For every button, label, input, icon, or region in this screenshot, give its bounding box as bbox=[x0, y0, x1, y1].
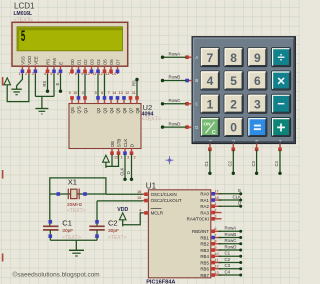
svg-text:RowD: RowD bbox=[225, 244, 237, 249]
U1 pin 10 (RB4) bbox=[200, 252, 221, 259]
U1 pin 8 (RB2) bbox=[200, 240, 221, 247]
svg-text:2: 2 bbox=[134, 156, 136, 160]
U1 pin 3 (RA4/T0CKI) bbox=[187, 215, 222, 222]
svg-text:RS: RS bbox=[42, 81, 47, 87]
svg-text:VDD: VDD bbox=[27, 56, 32, 65]
svg-text:D5: D5 bbox=[103, 59, 108, 65]
keypad button multiply bbox=[271, 71, 290, 90]
svg-text:CLK: CLK bbox=[120, 167, 125, 175]
svg-text:8: 8 bbox=[214, 240, 216, 244]
wire net E from U1 bbox=[219, 192, 243, 195]
svg-text:VSS: VSS bbox=[20, 56, 25, 65]
svg-text:RowA: RowA bbox=[225, 226, 237, 231]
U2 input pin name labels OE STB CLK D bbox=[110, 139, 135, 148]
svg-text:RowC: RowC bbox=[225, 238, 237, 243]
wire U2 STB to power bbox=[112, 155, 119, 167]
svg-text:5: 5 bbox=[21, 29, 26, 47]
ground symbol (LCD VEE/RW) bbox=[35, 96, 48, 114]
U2 output pin name labels bbox=[70, 106, 140, 113]
svg-text:A: A bbox=[195, 55, 198, 60]
keypad row pin A stub bbox=[185, 55, 192, 59]
wire LCD D2 to U2 bbox=[84, 74, 86, 96]
clipped wire stub left edge middle bbox=[2, 170, 4, 179]
svg-text:RB3: RB3 bbox=[200, 248, 209, 253]
wire LCD D1 to U2 bbox=[78, 74, 80, 96]
svg-text:×: × bbox=[277, 72, 285, 88]
svg-text:10: 10 bbox=[73, 91, 77, 95]
keypad row pin C stub bbox=[185, 102, 192, 106]
svg-text:B: B bbox=[195, 78, 198, 83]
svg-text:PIC16F84A: PIC16F84A bbox=[146, 279, 175, 284]
keypad button equals bbox=[248, 117, 267, 136]
svg-text:D1: D1 bbox=[77, 59, 82, 65]
svg-text:0: 0 bbox=[230, 121, 237, 135]
C1 pin state squares bbox=[49, 220, 53, 238]
wire VSS to ground bbox=[17, 74, 23, 86]
U2 top pins stubs with logic-state squares and pin numbers bbox=[69, 91, 139, 104]
U2 bottom pins stubs with logic-state squares and pin numbers bbox=[110, 149, 135, 160]
svg-text:30pF: 30pF bbox=[108, 228, 119, 234]
wire net C4 from U1 bbox=[219, 274, 243, 277]
svg-text:RB4: RB4 bbox=[200, 254, 209, 259]
wire net CLK from U1 bbox=[219, 199, 243, 202]
svg-text:9: 9 bbox=[254, 51, 261, 65]
C2 pin state squares bbox=[95, 220, 99, 238]
keypad row pin B stub bbox=[185, 79, 192, 83]
svg-text:RowB: RowB bbox=[225, 232, 237, 237]
svg-text:RB2: RB2 bbox=[200, 242, 209, 247]
keypad button plus bbox=[271, 117, 290, 136]
svg-text:13: 13 bbox=[105, 72, 109, 76]
svg-text:QS: QS bbox=[70, 107, 75, 113]
LCD1 body bbox=[12, 22, 128, 66]
svg-text:D3: D3 bbox=[90, 59, 95, 65]
wire crystal top loop bbox=[50, 178, 106, 226]
svg-text:7: 7 bbox=[207, 51, 214, 65]
svg-text:4: 4 bbox=[139, 209, 141, 213]
keypad body bbox=[192, 37, 295, 143]
svg-text:RW: RW bbox=[52, 57, 57, 65]
svg-text:C2: C2 bbox=[225, 257, 231, 262]
wire net C4 from keypad bbox=[278, 150, 281, 175]
svg-text:Q1: Q1 bbox=[83, 107, 88, 113]
LCD1 screen bbox=[17, 27, 123, 51]
svg-text:STB: STB bbox=[117, 139, 122, 148]
clipped wire stub left edge bottom bbox=[2, 254, 4, 262]
svg-text:OSC2/CLKOUT: OSC2/CLKOUT bbox=[151, 198, 182, 203]
svg-text:18: 18 bbox=[214, 196, 218, 200]
keypad button 7 bbox=[200, 48, 219, 67]
wire net C1 from keypad bbox=[208, 150, 211, 175]
svg-text:D: D bbox=[126, 171, 131, 174]
svg-text:Q5: Q5 bbox=[116, 107, 121, 113]
svg-text:÷: ÷ bbox=[277, 50, 284, 65]
power terminal VDD (LCD) bbox=[4, 78, 11, 89]
svg-text:Q8: Q8 bbox=[135, 107, 140, 113]
svg-text:Q3: Q3 bbox=[103, 107, 108, 113]
svg-text:C3: C3 bbox=[251, 160, 256, 166]
wire VDD to MCLR bbox=[123, 213, 143, 225]
svg-text:5: 5 bbox=[95, 91, 97, 95]
U1 pin 13 (RB7) bbox=[200, 271, 221, 278]
wire net RowA from U1 bbox=[219, 230, 243, 233]
U1 pin 12 (RB6) bbox=[200, 265, 221, 272]
svg-text:17: 17 bbox=[214, 190, 218, 194]
svg-text:13: 13 bbox=[214, 271, 218, 275]
svg-text:CLK: CLK bbox=[123, 139, 128, 148]
power terminal VDD (MCLR) bbox=[119, 213, 126, 227]
svg-text:VEE: VEE bbox=[33, 56, 38, 65]
svg-text:C4: C4 bbox=[225, 269, 231, 274]
svg-text:C3: C3 bbox=[225, 263, 231, 268]
svg-text:RowA: RowA bbox=[169, 51, 181, 56]
U1 pin 9 (RB3) bbox=[200, 246, 221, 253]
svg-text:6: 6 bbox=[101, 91, 103, 95]
wire RW to ground rail bbox=[53, 74, 55, 96]
svg-text:RB1: RB1 bbox=[200, 235, 209, 240]
svg-text:Q6: Q6 bbox=[122, 107, 127, 113]
wire OSC2 down to C2 bbox=[96, 201, 98, 226]
U1 pin 1 (RA2) bbox=[200, 202, 221, 209]
svg-text:D4: D4 bbox=[96, 59, 101, 65]
svg-text:RowC: RowC bbox=[169, 98, 181, 103]
svg-text:1: 1 bbox=[214, 202, 216, 206]
svg-text:D2: D2 bbox=[83, 59, 88, 65]
svg-text:D: D bbox=[195, 125, 198, 130]
svg-text:D6: D6 bbox=[109, 59, 114, 65]
wire net C3 from U1 bbox=[219, 267, 243, 270]
keypad column pin 4 stub bbox=[278, 143, 282, 151]
wire net RowC from U1 bbox=[219, 242, 243, 245]
svg-text:4: 4 bbox=[44, 72, 46, 76]
svg-text:C: C bbox=[212, 130, 216, 136]
svg-text:RS: RS bbox=[131, 80, 136, 86]
svg-text:RowD: RowD bbox=[169, 121, 181, 126]
wire ground rail C1-C2 bbox=[50, 239, 97, 241]
svg-text:15: 15 bbox=[137, 196, 141, 200]
svg-text:12: 12 bbox=[125, 91, 129, 95]
keypad button 4 bbox=[200, 71, 219, 90]
svg-text:2: 2 bbox=[214, 208, 216, 212]
wire OSC1 to U1 bbox=[106, 193, 143, 195]
svg-text:11: 11 bbox=[92, 72, 96, 76]
U1 pin 11 (RB5) bbox=[200, 258, 221, 265]
svg-text:E: E bbox=[238, 188, 241, 193]
capacitor C1 bbox=[43, 226, 59, 240]
svg-text:C4: C4 bbox=[274, 160, 279, 166]
svg-text:RA1: RA1 bbox=[200, 198, 209, 203]
clipped wire stub left edge top bbox=[2, 77, 4, 86]
svg-text:RA4/T0CKI: RA4/T0CKI bbox=[187, 217, 209, 222]
wire net CLK from U2 bbox=[123, 155, 126, 181]
svg-text:3: 3 bbox=[127, 156, 129, 160]
svg-text:1: 1 bbox=[207, 97, 214, 111]
svg-text:6: 6 bbox=[254, 74, 261, 88]
X1 pin state squares bbox=[57, 192, 87, 196]
wire net RS to U2 Q8 bbox=[135, 78, 138, 97]
svg-text:10: 10 bbox=[214, 252, 218, 256]
svg-text:RS: RS bbox=[46, 59, 51, 65]
svg-text:C2: C2 bbox=[108, 218, 118, 227]
keypad row pin D stub bbox=[185, 125, 192, 129]
U1 pin 16 (OSC1/CLKIN) bbox=[137, 190, 177, 197]
wire LCD D4 to U2 bbox=[97, 74, 99, 96]
svg-text:14: 14 bbox=[112, 72, 116, 76]
svg-text:+: + bbox=[277, 120, 286, 137]
keypad button 5 bbox=[224, 71, 243, 90]
svg-text:5: 5 bbox=[50, 72, 52, 76]
svg-text:D: D bbox=[238, 201, 241, 206]
svg-text:RA2: RA2 bbox=[200, 204, 209, 209]
svg-text:RB0/INT: RB0/INT bbox=[192, 229, 209, 234]
keypad button minus bbox=[271, 94, 290, 113]
svg-text:Q2: Q2 bbox=[96, 107, 101, 113]
svg-text:<TEXT>: <TEXT> bbox=[67, 208, 86, 214]
svg-text:1: 1 bbox=[209, 140, 213, 142]
svg-text:1: 1 bbox=[121, 156, 123, 160]
svg-text:16: 16 bbox=[137, 190, 141, 194]
svg-text:OE: OE bbox=[110, 141, 115, 147]
keypad column pin 3 stub bbox=[255, 143, 259, 151]
wire net RowD from U1 bbox=[219, 249, 243, 252]
svg-text:10: 10 bbox=[86, 72, 90, 76]
svg-text:CLK: CLK bbox=[232, 194, 241, 199]
ground symbol (LCD VSS) bbox=[11, 86, 21, 95]
svg-text:15: 15 bbox=[114, 156, 118, 160]
svg-text:ON: ON bbox=[204, 122, 212, 127]
svg-text:U1: U1 bbox=[146, 181, 157, 190]
svg-text:<TEXT>: <TEXT> bbox=[108, 235, 127, 241]
svg-text:RB5: RB5 bbox=[200, 260, 209, 265]
svg-text:4: 4 bbox=[207, 74, 214, 88]
svg-text:9: 9 bbox=[69, 91, 71, 95]
svg-text:1: 1 bbox=[19, 72, 21, 76]
wire net C2 from keypad bbox=[232, 150, 235, 175]
svg-text:<TEXT>: <TEXT> bbox=[142, 117, 161, 123]
svg-text:12: 12 bbox=[214, 265, 218, 269]
keypad button 8 bbox=[224, 48, 243, 67]
wire net RowC to keypad bbox=[161, 102, 187, 105]
wire net D from U2 bbox=[130, 155, 133, 181]
keypad button 9 bbox=[248, 48, 267, 67]
keypad button 0 bbox=[224, 117, 243, 136]
svg-text:7: 7 bbox=[214, 233, 216, 237]
U1 pin 2 (RA3) bbox=[200, 208, 221, 215]
svg-text:11: 11 bbox=[214, 258, 218, 262]
svg-text:9: 9 bbox=[81, 72, 83, 76]
wire net E from LCD bbox=[59, 74, 62, 93]
svg-text:LCD1: LCD1 bbox=[14, 2, 35, 11]
svg-text:−: − bbox=[277, 96, 285, 111]
LCD1 pin name labels VSS VDD VEE RS RW E D0-D7 bbox=[20, 56, 120, 65]
svg-text:Q'S: Q'S bbox=[77, 106, 82, 113]
svg-text:©saeedsolutions.blogspot.com: ©saeedsolutions.blogspot.com bbox=[13, 270, 100, 278]
svg-text:4: 4 bbox=[279, 140, 283, 142]
svg-text:C1: C1 bbox=[225, 251, 231, 256]
svg-text:D: D bbox=[130, 144, 135, 147]
svg-text:3: 3 bbox=[214, 215, 216, 219]
wire net RowD to keypad bbox=[161, 125, 187, 128]
svg-text:8: 8 bbox=[230, 51, 237, 65]
keypad button divide bbox=[271, 48, 290, 67]
svg-text:RB7: RB7 bbox=[200, 273, 209, 278]
keypad button ON/C bbox=[200, 117, 219, 136]
keypad column pin 1 stub bbox=[208, 143, 212, 151]
svg-text:RB6: RB6 bbox=[200, 267, 209, 272]
U1 pin 7 (RB1) bbox=[200, 233, 221, 240]
svg-text:E: E bbox=[55, 83, 60, 86]
ground symbol (crystal caps) bbox=[69, 240, 84, 256]
svg-text:6: 6 bbox=[57, 72, 59, 76]
svg-text:OSC1/CLKIN: OSC1/CLKIN bbox=[151, 192, 177, 197]
wire net RowB from U1 bbox=[219, 236, 243, 239]
svg-text:9: 9 bbox=[214, 246, 216, 250]
svg-text:LM016L: LM016L bbox=[14, 11, 33, 17]
svg-text:MCLR: MCLR bbox=[151, 211, 163, 216]
wire net RowA to keypad bbox=[161, 56, 187, 59]
svg-text:C2: C2 bbox=[228, 160, 233, 166]
wire VEE to ground rail bbox=[34, 74, 36, 96]
svg-text:6: 6 bbox=[214, 227, 216, 231]
svg-text:12: 12 bbox=[99, 72, 103, 76]
svg-text:E: E bbox=[59, 62, 64, 65]
svg-text:2: 2 bbox=[230, 97, 237, 111]
svg-text:13: 13 bbox=[119, 91, 123, 95]
power terminal VDD (U2 OE/STB) bbox=[103, 155, 110, 168]
wire net C2 from U1 bbox=[219, 261, 243, 264]
svg-text:X1: X1 bbox=[68, 177, 77, 186]
wire net C3 from keypad bbox=[255, 150, 258, 175]
origin marker bbox=[166, 156, 174, 164]
keypad button 3 bbox=[248, 94, 267, 113]
svg-text:C1: C1 bbox=[204, 160, 209, 166]
shift register U2 body bbox=[69, 104, 141, 149]
svg-text:14: 14 bbox=[112, 91, 116, 95]
svg-text:C: C bbox=[195, 102, 198, 107]
wire net C1 from U1 bbox=[219, 255, 243, 258]
wire net RS from LCD bbox=[46, 74, 49, 93]
svg-text:11: 11 bbox=[132, 91, 136, 95]
svg-text:8: 8 bbox=[75, 72, 77, 76]
svg-text:RA0: RA0 bbox=[200, 192, 209, 197]
keypad button 1 bbox=[200, 94, 219, 113]
wire OSC2 to U1 bbox=[97, 200, 143, 202]
capacitor C2 bbox=[89, 226, 104, 240]
svg-text:7: 7 bbox=[68, 72, 70, 76]
svg-text:Q4: Q4 bbox=[109, 107, 114, 113]
svg-text:30pF: 30pF bbox=[62, 228, 73, 234]
wire LCD D5 to U2 bbox=[104, 74, 106, 96]
svg-text:2: 2 bbox=[25, 72, 27, 76]
U1 pin 17 (RA0) bbox=[200, 190, 221, 197]
svg-text:7: 7 bbox=[108, 91, 110, 95]
U1 pin 18 (RA1) bbox=[200, 196, 221, 203]
U1 pin 4 (MCLR) bbox=[139, 209, 163, 216]
U1 pin 6 (RB0/INT) bbox=[192, 227, 221, 234]
svg-text:4: 4 bbox=[82, 91, 84, 95]
svg-text:D7: D7 bbox=[116, 59, 121, 65]
keypad button 2 bbox=[224, 94, 243, 113]
keypad column pin 2 stub bbox=[232, 143, 236, 151]
svg-text:RowB: RowB bbox=[169, 75, 181, 80]
keypad button 6 bbox=[248, 71, 267, 90]
wire U2 OE to power bbox=[106, 155, 112, 167]
svg-text:C1: C1 bbox=[62, 218, 72, 227]
svg-text:RA3: RA3 bbox=[200, 210, 209, 215]
svg-text:2: 2 bbox=[232, 140, 236, 142]
wire crystal horizontal bbox=[50, 193, 106, 195]
svg-text:D0: D0 bbox=[70, 59, 75, 65]
svg-text:Q7: Q7 bbox=[129, 107, 134, 113]
wire net D from U1 bbox=[219, 205, 243, 208]
svg-text:3: 3 bbox=[255, 140, 259, 142]
U1 body bbox=[148, 190, 210, 278]
svg-text:3: 3 bbox=[32, 72, 34, 76]
svg-text:3: 3 bbox=[254, 97, 261, 111]
LCD1 pins 1-14 stubs with logic-state squares and pin numbers bbox=[19, 66, 120, 76]
wire net RowB to keypad bbox=[161, 79, 187, 82]
crystal X1 symbol bbox=[68, 189, 79, 200]
wire ground rail VEE-RW bbox=[35, 95, 54, 97]
wire VDD to power bbox=[7, 74, 29, 102]
U1 pin 15 (OSC2/CLKOUT) bbox=[137, 196, 182, 203]
svg-text:5: 5 bbox=[230, 74, 237, 88]
